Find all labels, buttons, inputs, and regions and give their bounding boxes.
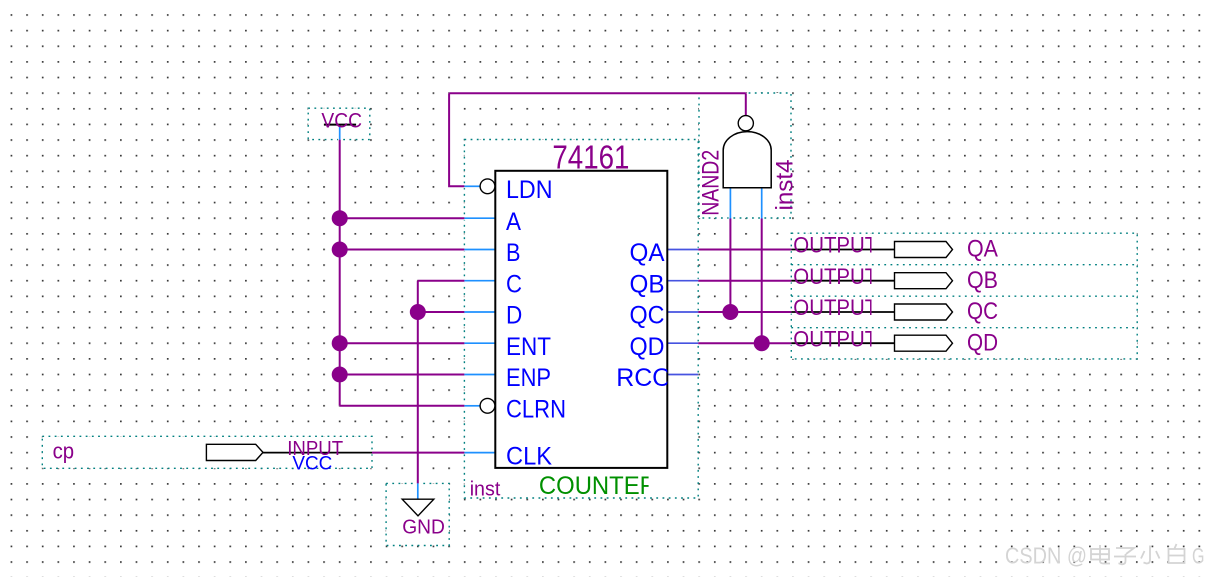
svg-text:QC: QC	[967, 298, 998, 325]
svg-text:RCO: RCO	[616, 364, 672, 392]
svg-text:QA: QA	[630, 239, 665, 267]
svg-text:G: G	[1192, 544, 1205, 569]
svg-text:VCC: VCC	[321, 110, 362, 133]
svg-text:B: B	[506, 239, 521, 267]
svg-text:ENT: ENT	[506, 333, 551, 361]
svg-text:C: C	[506, 270, 522, 298]
svg-text:CLRN: CLRN	[506, 395, 566, 423]
svg-text:QB: QB	[630, 270, 665, 298]
svg-text:D: D	[506, 302, 522, 330]
svg-text:COUNTER: COUNTER	[539, 472, 657, 500]
svg-text:74161: 74161	[552, 139, 629, 176]
svg-text:QC: QC	[630, 302, 665, 330]
svg-text:OUTPUT: OUTPUT	[793, 295, 877, 320]
svg-text:OUTPUT: OUTPUT	[793, 326, 877, 351]
svg-text:NAND2: NAND2	[698, 150, 725, 216]
svg-text:inst4: inst4	[772, 160, 799, 211]
svg-text:inst: inst	[470, 479, 501, 501]
svg-text:OUTPUT: OUTPUT	[793, 233, 877, 258]
svg-text:ENP: ENP	[506, 364, 551, 392]
svg-text:QD: QD	[967, 329, 998, 356]
svg-text:CSDN @: CSDN @	[1005, 543, 1087, 569]
svg-text:OUTPUT: OUTPUT	[793, 264, 877, 289]
svg-text:QD: QD	[630, 333, 665, 361]
svg-text:cp: cp	[53, 439, 75, 464]
svg-text:QA: QA	[967, 236, 998, 263]
svg-text:A: A	[506, 208, 521, 236]
svg-text:VCC: VCC	[292, 454, 332, 475]
svg-text:LDN: LDN	[506, 176, 553, 204]
svg-text:GND: GND	[402, 516, 445, 538]
svg-text:CLK: CLK	[506, 442, 552, 470]
svg-text:QB: QB	[967, 267, 998, 294]
